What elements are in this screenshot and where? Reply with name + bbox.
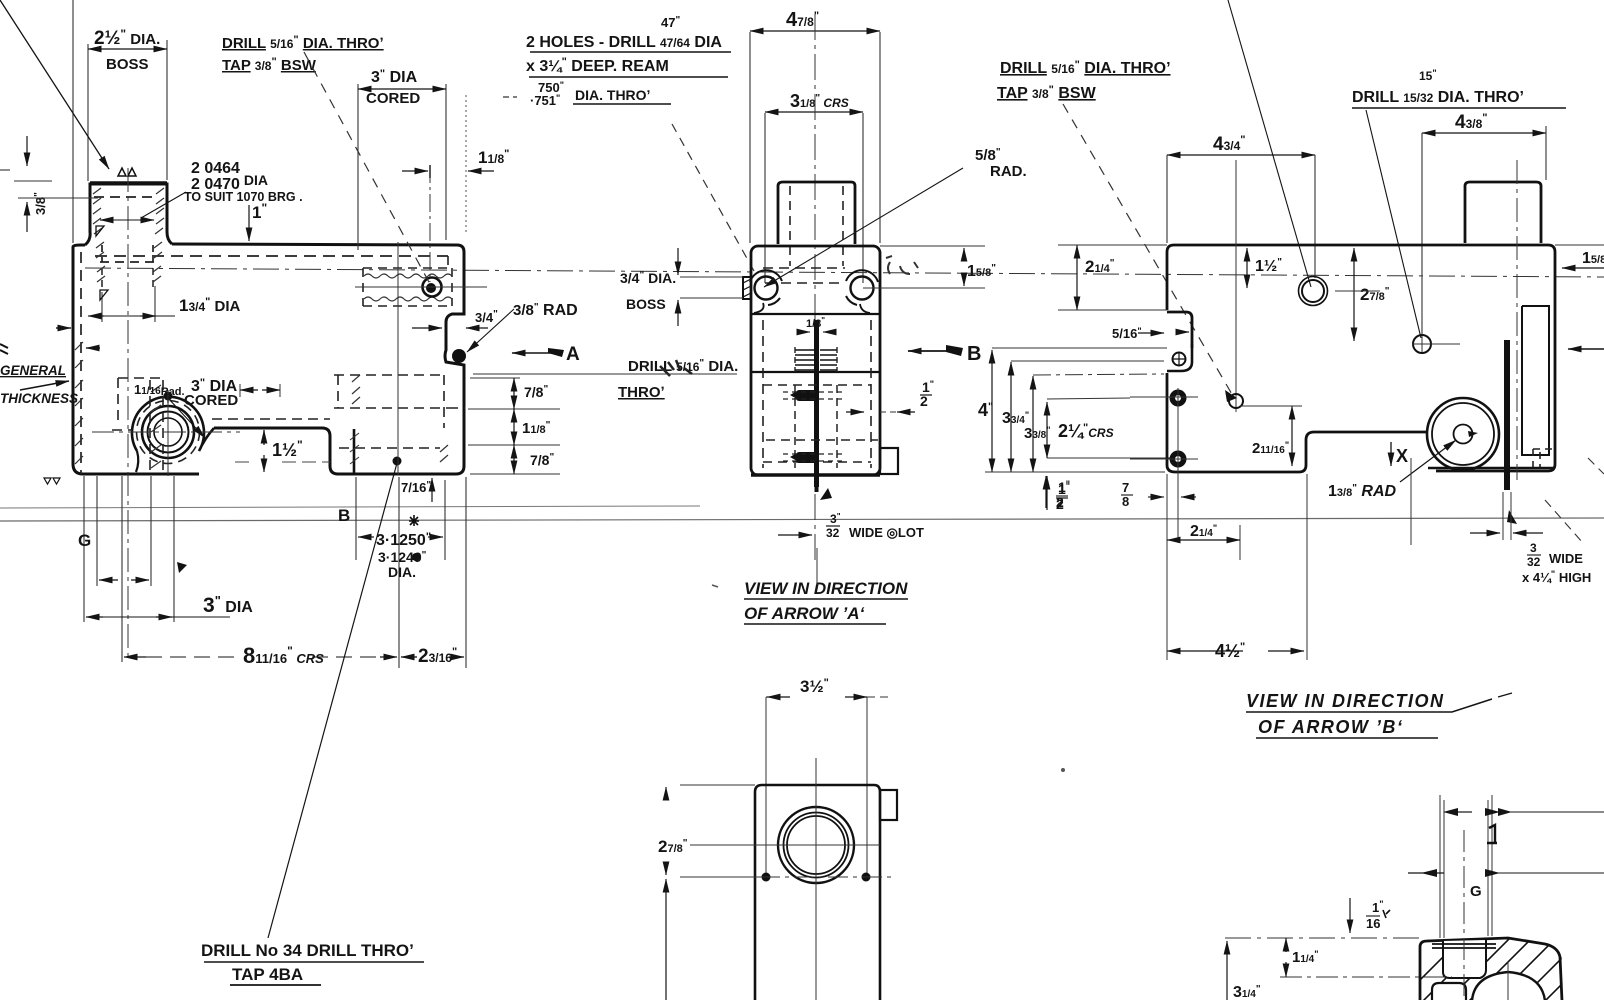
lower white slot (1432, 983, 1466, 1000)
dim 2-1/4 left of right view (1076, 245, 1078, 310)
svg-text:16: 16 (1366, 916, 1380, 931)
surface mark triangle in boss (96, 226, 104, 236)
section line under bearing holes (751, 313, 880, 315)
dim 1-5/8 at right edge (1562, 267, 1604, 269)
svg-text:2½" DIA.: 2½" DIA. (94, 27, 160, 49)
arrowhead pointing up at slot bottom (820, 488, 832, 500)
arrow 1 inch pointing down to top face (248, 205, 250, 241)
extension line centre hole horizontal (1335, 290, 1380, 292)
dimension 3 DIA CORED top (358, 88, 446, 90)
thread hatch box right of slot (820, 350, 837, 370)
hatch ticks boss left side (93, 188, 105, 282)
boss on top of left view (85, 184, 172, 245)
arrowhead blob on tapped hole (1225, 390, 1237, 402)
hidden hole bottom lines (763, 268, 845, 283)
right view main outline (1167, 245, 1555, 471)
svg-text:CORED: CORED (366, 90, 420, 107)
svg-text:DRILL 5/16" DIA.: DRILL 5/16" DIA. (628, 358, 738, 375)
stud dot left (762, 873, 771, 882)
dimension 1-5/8 right of middle view (880, 245, 985, 247)
tiny arrows at bearing centre (1468, 431, 1478, 437)
underline drill 15/32 (1352, 107, 1566, 109)
svg-text:VIEW IN DIRECTION: VIEW IN DIRECTION (1246, 691, 1445, 711)
big bearing centre hole (1454, 425, 1473, 444)
slot dark bar right view (1504, 340, 1510, 490)
dashed leader from bsw note to hole (1063, 104, 1233, 396)
svg-text:3/4" DIA.: 3/4" DIA. (620, 270, 676, 286)
hidden line above notch floor (212, 418, 330, 420)
svg-text:BOSS: BOSS (106, 56, 149, 73)
boss tab dim arrows (677, 248, 679, 275)
leader arrow from sheet corner to boss (0, 0, 109, 169)
dashed leader from holes note to left hole (672, 124, 754, 271)
tick at 430 (429, 165, 431, 178)
3.1250 dim arrows (358, 536, 374, 538)
long scan fold line lower (0, 518, 1604, 521)
extension line cored left (357, 84, 359, 250)
hidden drilled hole verticals below boss (102, 268, 153, 292)
misc faint dot (1061, 768, 1065, 772)
svg-text:DRILL No 34 DRILL THROʼ: DRILL No 34 DRILL THROʼ (201, 941, 414, 960)
hidden pocket outline lower section (763, 320, 871, 468)
hatch ticks on step edge (350, 433, 359, 464)
bottom view body outline (755, 785, 880, 1000)
horizontal centre line bearing (92, 431, 240, 433)
dashed ext for half dim (880, 411, 897, 413)
underline + tail (1246, 699, 1492, 712)
arrow to slot from left (778, 534, 812, 536)
middle view body outline (751, 246, 880, 475)
svg-text:3: 3 (1530, 541, 1537, 555)
fillet ink blob (452, 349, 466, 363)
underline drill no34 (204, 961, 424, 963)
big bore arc bottom (1472, 972, 1545, 1000)
dim 3-1/4 up arrow (1226, 941, 1228, 1000)
smudge blob on drill note (660, 360, 692, 376)
ext line y977 (1280, 976, 1452, 978)
dimension 4-3/8 top right (1422, 132, 1546, 134)
centre line through cored hole (355, 286, 487, 288)
big boss circle outer (778, 807, 854, 883)
extension lines of 1-3/4 bore (102, 286, 155, 322)
svg-text:DIA.: DIA. (388, 564, 416, 580)
black stud dot upper (1170, 390, 1187, 407)
svg-text:B: B (967, 343, 981, 365)
hatch ticks on rib (151, 385, 161, 468)
underline (1256, 737, 1438, 739)
leader arrow general thickness to wall (20, 381, 69, 390)
extension line cored right (445, 84, 447, 240)
extension line at boss top level (14, 180, 52, 182)
underline view A line1 (744, 598, 908, 600)
boss bore dimension arrows (100, 219, 113, 221)
svg-text:B: B (338, 506, 350, 525)
underline view A line2 (744, 623, 886, 625)
boss on top of middle view (778, 182, 855, 244)
arrow 7/16 up to bottom edge (431, 478, 433, 502)
hidden boss bore verticals into body (102, 245, 153, 262)
extension verticals 4-3/4 (1167, 155, 1315, 278)
threaded stud upper (796, 390, 818, 401)
svg-text:DRILL 5/16" DIA. THROʼ: DRILL 5/16" DIA. THROʼ (222, 34, 384, 52)
inner slot rectangle right side (1522, 306, 1549, 455)
centre line through holes extended right (863, 287, 985, 289)
slot width dim at top (797, 331, 810, 333)
dashed leader from tap note to cored hole (304, 52, 430, 284)
hidden line top wall inner (95, 255, 448, 257)
VIEW A arrow (512, 352, 563, 354)
extension verticals from above (1440, 795, 1492, 938)
stud hidden lines across (783, 392, 843, 461)
svg-text:7: 7 (1122, 480, 1129, 495)
dim stack: 2-1/4 line (1046, 402, 1048, 458)
dim stack: 3-3/8 line (1032, 376, 1034, 472)
svg-text:5/16": 5/16" (1112, 326, 1142, 341)
right bearing hole (851, 277, 874, 300)
cored hole ink blob (426, 283, 436, 293)
extension horizontals 2-7/8 (680, 785, 762, 877)
ink dot on 3.1249 (412, 553, 420, 561)
dimension 3-1/2 top of bottom view (766, 696, 768, 698)
smudge marks right of middle view (886, 256, 918, 274)
left margin 3/8 dim down arrow (26, 136, 28, 166)
stud centre vertical (1177, 388, 1179, 470)
hidden line left wall inner (80, 252, 82, 474)
slot width arrows bottom right (1470, 532, 1500, 534)
bottom edge emphasis (751, 473, 880, 477)
vertical line through 7/16 hole (397, 242, 399, 475)
dimension arrows 3 dia cored centre (240, 389, 258, 391)
leader dot for drill no34 (393, 457, 402, 466)
leader from 15/32 note to hole (1366, 110, 1421, 338)
underline line2 (529, 76, 728, 78)
small triangles under bottom edge (44, 478, 60, 484)
hidden pocket bottom right dashed (334, 375, 465, 448)
dimension 1-1/2 notch vertical (263, 430, 265, 436)
svg-text:THROʼ: THROʼ (618, 384, 665, 401)
slot top double line (1432, 944, 1496, 948)
svg-text:x 4¼" HIGH: x 4¼" HIGH (1522, 569, 1591, 585)
dim 1/2 bottom left of right view (1045, 476, 1047, 508)
ext line for 2-11/16 (1240, 405, 1302, 407)
dim stack: 3-3/4 line (1010, 362, 1012, 472)
long leader to counterbored hole (1228, 0, 1311, 287)
black stud dot lower (1170, 451, 1187, 468)
misc small dash upper middle (712, 585, 718, 587)
dimension 2-3/16 (401, 656, 417, 658)
top edge extension to sheet edge (1555, 244, 1604, 246)
svg-text:x 3¼" DEEP. REAM: x 3¼" DEEP. REAM (526, 56, 669, 75)
extension tick for cored centre (239, 384, 241, 397)
svg-text:THICKNESS: THICKNESS (0, 391, 78, 406)
svg-text:TAP 3/8" BSW: TAP 3/8" BSW (997, 84, 1097, 102)
dim line upper (1443, 808, 1458, 816)
dimension 2-1/2 DIA line (88, 48, 167, 50)
cross in step hole (1172, 352, 1186, 366)
hidden step edge inside notch (353, 429, 356, 474)
svg-text:TAP 3/8" BSW: TAP 3/8" BSW (222, 56, 317, 74)
half inch dim small arrows (846, 411, 864, 413)
stacked dim verticals right of view (513, 378, 515, 409)
notch depth arrows 3/4 (412, 327, 442, 329)
small mark at margin (0, 344, 8, 354)
bearing boss merge left (136, 451, 138, 472)
svg-text:G: G (78, 531, 91, 550)
svg-text:13/4" DIA: 13/4" DIA (179, 296, 241, 315)
part outline (1420, 938, 1562, 1000)
hidden pocket inner verticals (795, 385, 837, 468)
boss on top of right view (1465, 182, 1541, 243)
svg-text:WIDE: WIDE (1549, 551, 1583, 566)
lower dim line continuing off sheet (665, 879, 667, 1000)
arrow 1/16 down (1349, 898, 1351, 933)
extension line boss right (166, 40, 168, 180)
threaded stud lower (796, 452, 818, 463)
bearing boss outer arc (132, 397, 214, 451)
leader 1-1/16 rad to bearing boss (168, 398, 205, 438)
svg-text:TAP 4BA: TAP 4BA (232, 965, 303, 984)
stud dot right (862, 873, 871, 882)
dotted extension of right edge upward (465, 95, 467, 232)
svg-text:·751": ·751" (530, 93, 560, 108)
slot protruding below (815, 475, 819, 492)
svg-text:OF ARROW ʼAʻ: OF ARROW ʼAʻ (744, 604, 865, 623)
big boss circle inner (787, 816, 845, 874)
centre line continuation above bottom view (816, 548, 818, 585)
oil hole dot above bearing (164, 392, 173, 401)
bore centre vertical (1507, 962, 1509, 1000)
dashes of bottom notch centre line (235, 461, 330, 463)
wire oil hole stem (167, 392, 169, 403)
stack extension through stud (1047, 398, 1130, 399)
centre line through 15/32 hole (1421, 336, 1423, 352)
svg-text:CORED: CORED (184, 392, 238, 409)
dim 1-1/2 into top (1246, 248, 1248, 288)
big bearing circle mid (1432, 403, 1494, 465)
dimension 4-3/4 top left (1167, 154, 1315, 156)
slot vertical black bar (814, 320, 819, 487)
dimension 1-1/8 arrows (402, 170, 428, 172)
leader from note to boss bore (141, 192, 186, 218)
hatch on tab (743, 279, 751, 297)
centre line of boss right view (1516, 160, 1518, 480)
arrow at right sheet edge mid (1568, 348, 1604, 350)
leader 1-3/8 rad to bearing (1400, 440, 1456, 482)
dim 2-7/8 into top (1353, 248, 1355, 341)
dimension 1-3/4 DIA line (88, 315, 104, 317)
main horizontal centre line across drawing (85, 268, 1604, 277)
hatch ticks boss right side (153, 188, 164, 282)
underline tap 4ba (230, 984, 321, 986)
dimension 3 DIA bottom (86, 616, 103, 618)
extension verticals 3-1/2 (766, 697, 867, 873)
half inch below stack (1046, 476, 1048, 510)
extension line body left edge to sheet top (72, 0, 74, 243)
bearing bore inner circle (154, 418, 182, 446)
extension verticals below left view (84, 476, 466, 668)
big bearing circle outer (1427, 398, 1499, 470)
svg-text:G: G (1470, 883, 1482, 900)
svg-text:3" DIA: 3" DIA (371, 68, 418, 86)
svg-text:32: 32 (826, 526, 840, 540)
right edge notch dims: extension lines (468, 378, 560, 474)
hidden boss dashed top line (94, 196, 154, 198)
dim 1-1/4 (1285, 938, 1287, 952)
svg-text:RAD.: RAD. (990, 163, 1027, 180)
extension verticals for 4-7/8 dim (750, 32, 880, 243)
thread box outline dashed (795, 347, 837, 372)
svg-text:8: 8 (1122, 494, 1129, 509)
boss arc round left hole (750, 270, 782, 305)
bearing bore mid circle (148, 412, 189, 453)
svg-text:A: A (566, 344, 580, 365)
3/4 dia boss tab on left (743, 277, 751, 299)
svg-text:WIDE ◎LOT: WIDE ◎LOT (849, 525, 924, 540)
small mark h (1383, 910, 1390, 918)
svg-text:VIEW IN DIRECTION: VIEW IN DIRECTION (744, 579, 908, 598)
arrow 5/16 (1138, 332, 1164, 334)
cored cavity rough wavy line upper (364, 274, 452, 278)
dash fragment left margin (0, 169, 10, 171)
bottom right tab of middle view (880, 448, 898, 474)
small dim arrows at y580 (99, 579, 118, 581)
slot channel white (1443, 940, 1486, 978)
left margin 3/8 dim up arrow (26, 202, 28, 232)
ext verticals below right view (1167, 458, 1411, 560)
left bearing hole (755, 277, 778, 300)
hatching (1400, 920, 1604, 1000)
section line mid (751, 371, 880, 373)
boss tab extension lines (680, 277, 743, 298)
leader 3/8 rad to fillet (467, 309, 514, 352)
centre line of part (1463, 830, 1465, 1000)
dim stack right: 4 inch line (991, 350, 993, 472)
X down arrow (1390, 442, 1392, 466)
left edge step profile (1167, 312, 1428, 472)
big boss circle mid (784, 813, 849, 878)
svg-text:3·1250": 3·1250" (376, 531, 431, 549)
svg-text:2 0464: 2 0464 (191, 160, 240, 177)
centre cross of big circle (690, 844, 880, 846)
web curves to section line (754, 303, 870, 313)
dimension 8-11/16 CRS (124, 656, 146, 658)
svg-text:DRILL 15/32 DIA. THROʼ: DRILL 15/32 DIA. THROʼ (1352, 89, 1524, 106)
bold up arrow at slot bottom (1507, 510, 1517, 524)
extension verticals 4-3/8 (1422, 126, 1546, 336)
stack extension dash-dot at 375 (1033, 374, 1164, 375)
small tapped hole with leader circle (1229, 394, 1243, 408)
wire top edge left of boss (73, 245, 85, 247)
surface mark triangle upper (100, 290, 108, 300)
star mark (409, 515, 419, 526)
thread hatch box left of slot (795, 350, 814, 370)
VIEW B arrow at middle view (908, 350, 962, 352)
hidden rib verticals centre bottom (150, 380, 163, 472)
svg-text:TO SUIT 1070 BRG .: TO SUIT 1070 BRG . (184, 190, 303, 204)
hatch ticks bottom pocket (352, 375, 448, 462)
leader 5/8 RAD to left hole (764, 168, 963, 287)
verticals below slot (1503, 492, 1511, 540)
centre line through studs (692, 876, 892, 878)
wall thickness arrows at left edge (56, 327, 71, 329)
dashes before 751 (503, 96, 517, 98)
long scan fold line upper (0, 506, 700, 508)
ext verticals 4-1/2 (1167, 474, 1307, 660)
hidden tapped hole in boss (790, 186, 843, 266)
svg-text:3/8" RAD: 3/8" RAD (513, 302, 578, 319)
hole pocket at step (1167, 344, 1192, 371)
small hole at step (1173, 353, 1186, 366)
vertical centre line of middle view (814, 14, 816, 560)
dimension 4-7/8 line (750, 30, 880, 32)
hatch ticks on left wall (75, 342, 83, 464)
dimension 2-7/8 left of bottom view (665, 787, 667, 800)
bold tick label 1 (1487, 825, 1497, 843)
small tab top right of bottom view (880, 790, 897, 820)
svg-text:DRILL 5/16" DIA. THROʼ: DRILL 5/16" DIA. THROʼ (1000, 59, 1171, 77)
dashed circle round bearing boss (137, 401, 200, 464)
left view main outline (73, 247, 199, 474)
cored hole cavity dashed outline top right (363, 256, 452, 306)
dim 2-1/4 below (1167, 539, 1240, 541)
wire bottom notch floor (172, 244, 464, 474)
bottom edge right segment (1428, 467, 1555, 470)
stack extension horizontals (985, 348, 1172, 472)
dim line lower (1421, 869, 1437, 877)
hidden pocket below boss (112, 378, 163, 430)
dim 2-11/16 inside (1291, 406, 1293, 466)
arrow 5/16 second (1176, 331, 1189, 333)
fraction bar 3/32 (826, 525, 840, 527)
svg-text:DIA. THROʼ: DIA. THROʼ (575, 87, 650, 103)
underline line1 (530, 51, 731, 53)
drilled hole 15/32 (1413, 335, 1431, 353)
cored hole circle top right (423, 278, 442, 297)
bottom right dashed details (1533, 449, 1556, 470)
boss arc round right hole (846, 270, 878, 305)
vertical centre line of boss (127, 168, 129, 660)
extension line boss left (87, 44, 89, 181)
dashed diagonal lower right (1545, 500, 1583, 543)
tapped hole vertical extension (1235, 160, 1237, 412)
underline long of drill note (473, 373, 737, 375)
extension line at boss fillet level (18, 197, 98, 199)
svg-text:X: X (1396, 446, 1408, 466)
svg-text:2 HOLES - DRILL 47/64 DIA: 2 HOLES - DRILL 47/64 DIA (526, 34, 722, 51)
svg-text:BOSS: BOSS (626, 296, 666, 312)
bearing bore outer circle (142, 406, 194, 458)
vertical centre line bearing (167, 390, 169, 476)
hidden boss bore bottom (100, 261, 155, 263)
dim 4-1/2 bottom of right view (1167, 650, 1243, 652)
svg-text:32: 32 (1527, 555, 1541, 569)
machining symbol on boss top (118, 168, 136, 176)
extension verticals for 3-1/8 crs (765, 113, 863, 283)
small solid triangle marker (177, 562, 187, 573)
ext line y938 (1225, 937, 1420, 939)
svg-text:OF ARROW ʼBʻ: OF ARROW ʼBʻ (1258, 717, 1403, 737)
centre line of cored hole upward (429, 165, 431, 282)
dimension 3-1/8 crs line (765, 111, 863, 113)
hidden pocket horizontals (763, 385, 878, 462)
counterbored hole circles (1302, 280, 1324, 302)
underline line3 (573, 103, 671, 105)
stud centre horizontals (1130, 397, 1198, 459)
cored cavity rough wavy line lower (364, 297, 452, 301)
boss top edge (90, 181, 167, 184)
leader line drill no34 (268, 463, 397, 938)
svg-text:GENERAL: GENERAL (0, 363, 66, 378)
